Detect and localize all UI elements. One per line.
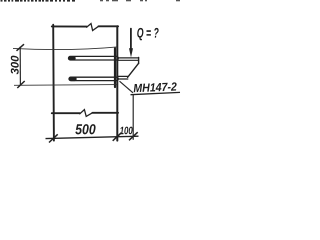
tick at x=53	[49, 134, 58, 142]
tick top of 300	[17, 44, 25, 51]
column right edge line	[116, 26, 118, 140]
bracket right edge	[138, 57, 140, 63]
break symbol on bottom line	[80, 110, 93, 117]
tick at x=135	[129, 132, 138, 140]
anchor bar 2 (lower, hollow with round left end)	[69, 77, 118, 80]
column top edge line (right part)	[99, 25, 119, 27]
load arrow head	[129, 48, 133, 57]
leader line from bracket to label	[120, 81, 134, 93]
embedded plate MH147-2 (vertical face plate)	[114, 49, 116, 88]
dimension text 500	[75, 124, 95, 134]
anchor bar 1 (upper, hollow with round left end)	[69, 56, 119, 60]
bracket bottom flange (double line)	[118, 75, 128, 77]
column top edge line (left part)	[52, 25, 87, 27]
dimension text 100	[120, 127, 133, 135]
bracket seat plate (top, double line)	[118, 57, 139, 59]
label underline MH147-2	[131, 92, 181, 94]
tick bottom of 300	[17, 81, 24, 88]
bottom dimension line	[46, 136, 139, 138]
extension line right x=135	[132, 95, 134, 140]
anchor bar 2 solid left cap	[69, 77, 77, 81]
text Q = ?	[137, 28, 158, 41]
dimension line 300 vertical	[19, 47, 21, 85]
anchor bar 1 solid left cap	[68, 56, 76, 60]
bracket chamfer diagonal	[128, 63, 139, 77]
extension line top of 300 dim	[13, 47, 117, 50]
load arrow Q shaft	[130, 29, 132, 50]
tick at x=117	[113, 133, 122, 141]
break symbol on top edge	[87, 24, 99, 31]
truncated text row at top of scan	[1, 0, 3, 2]
dimension text 300 (rotated)	[11, 56, 19, 75]
column bottom break line (right part)	[92, 112, 118, 114]
extension line bottom of 300 dim	[14, 84, 117, 87]
column bottom break line (left part)	[52, 112, 80, 114]
label text MH147-2	[134, 82, 177, 92]
column left edge line	[52, 25, 55, 141]
